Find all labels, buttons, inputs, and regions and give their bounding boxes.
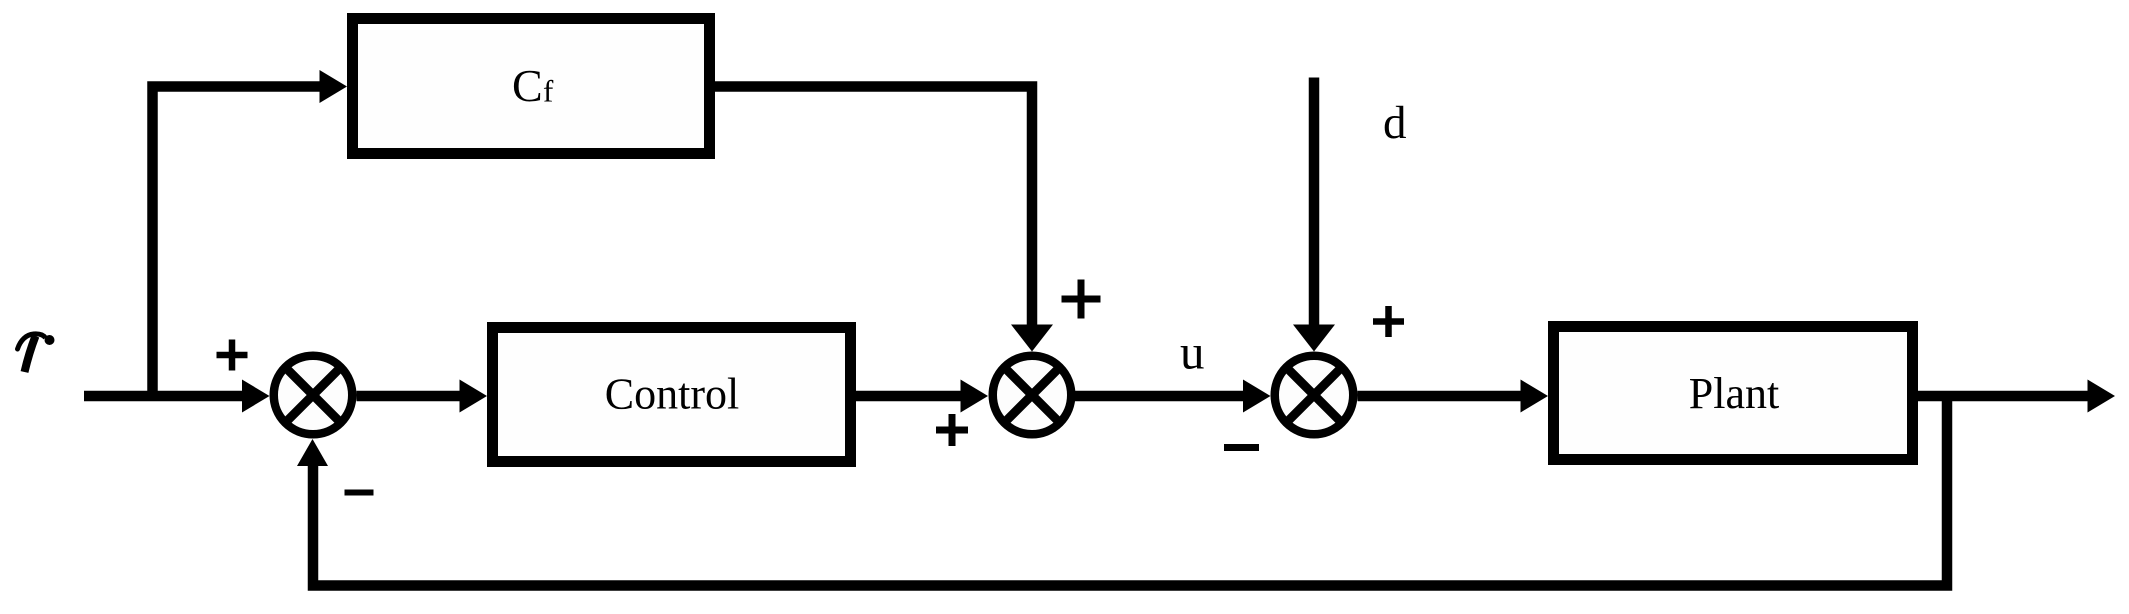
svg-text:C: C (512, 60, 543, 111)
wire: branch from input up to Cf (vertical + horizontal) (153, 87, 322, 397)
arrowhead into Plant box (1521, 380, 1549, 413)
wire: feedback path (down, left, up into J1 bottom) (313, 396, 1947, 586)
label + above-right of J2 (1062, 280, 1101, 319)
label + above-right of J3 (1373, 306, 1404, 337)
svg-text:Plant: Plant (1689, 369, 1779, 418)
arrowhead up into J1 bottom (297, 439, 328, 466)
arrowhead into J2 left (961, 380, 989, 413)
wire: J3 output to Plant (1358, 391, 1523, 402)
label + below-left of J2 (936, 414, 968, 446)
arrowhead into Control box (460, 380, 488, 413)
svg-text:d: d (1383, 97, 1407, 149)
arrowhead into J1 (242, 380, 270, 413)
summing junction J1 (274, 356, 353, 435)
block Control (box) (493, 328, 851, 462)
wire: J1 output to Control (357, 391, 462, 402)
block Cf (box) (353, 19, 710, 154)
arrowhead output (2088, 380, 2116, 413)
label r (input signal) (18, 334, 55, 372)
svg-text:Control: Control (605, 370, 739, 419)
wire: input from r to summing junction J1 (84, 391, 246, 402)
arrowhead into J3 left (1243, 380, 1271, 413)
svg-text:f: f (543, 74, 554, 109)
wire: disturbance d input (vertical down into J3) (1309, 78, 1320, 327)
wire: Control output to J2 (856, 391, 962, 402)
summing junction J3 (1275, 356, 1354, 435)
wire: Plant output to the right edge (1918, 391, 2089, 402)
label - below-left of J3 (1224, 444, 1259, 451)
arrowhead down into J2 top (1011, 325, 1053, 352)
block Plant (box) (1554, 327, 1913, 460)
wire: Cf output to junction J2 (horizontal + vertical down) (715, 87, 1032, 327)
summing junction J2 (993, 356, 1072, 435)
arrowhead down into J3 top (1293, 325, 1335, 352)
label + at J1 input (217, 340, 248, 371)
arrowhead into Cf box (320, 70, 348, 103)
svg-text:u: u (1180, 325, 1205, 380)
wire: J2 output (signal u) to J3 (1075, 391, 1244, 402)
label - below J1 (345, 490, 374, 496)
